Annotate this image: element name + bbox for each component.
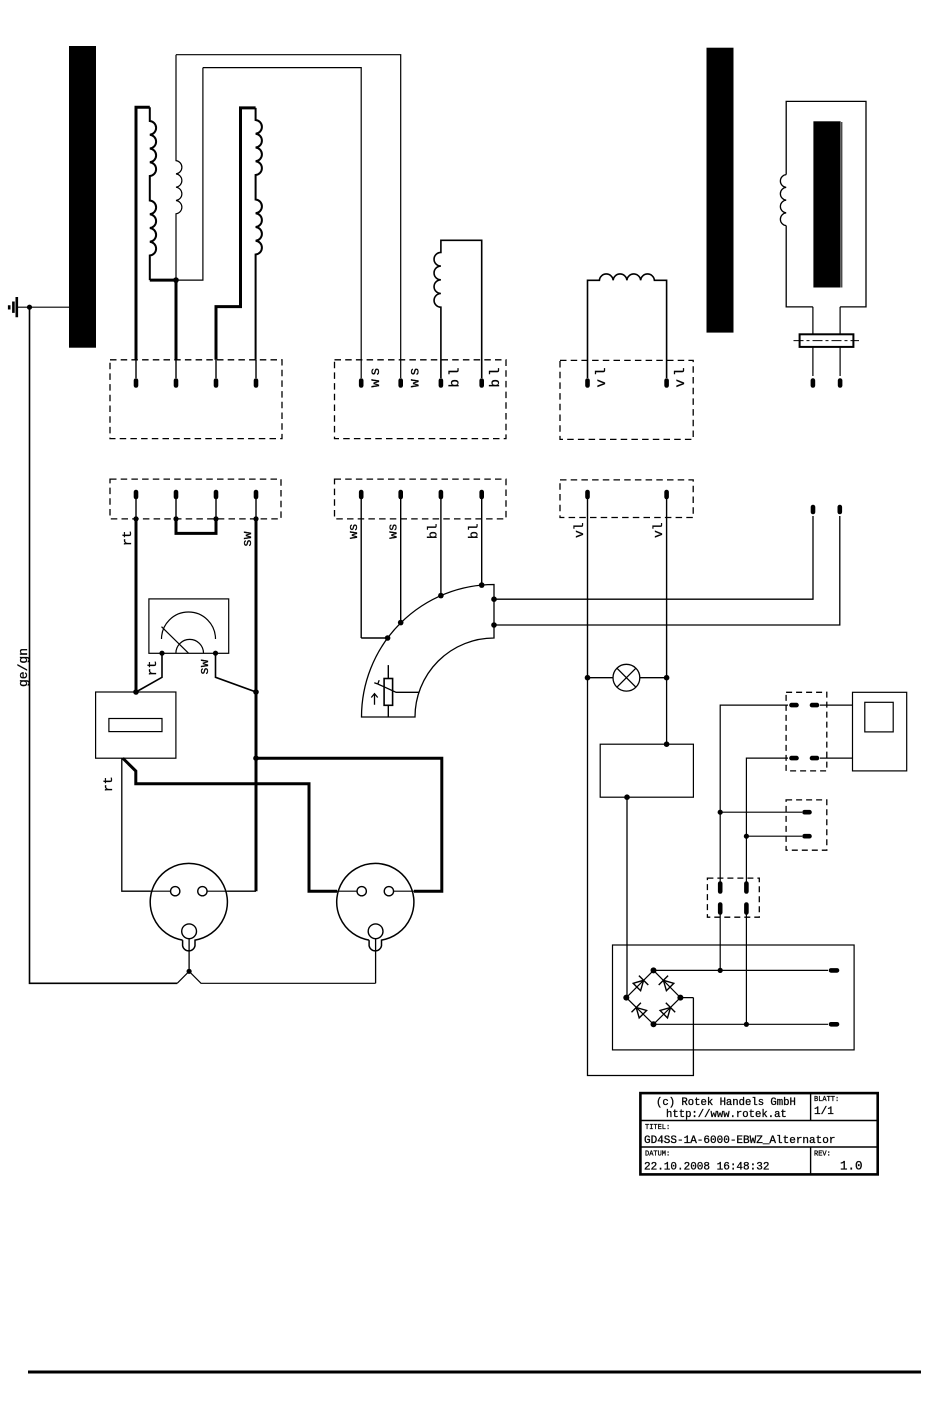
voltmeter outer scale arc [162,612,216,639]
svg-text:sw: sw [197,659,212,675]
pin ws [398,381,403,386]
connector X1 housing (generator side, left) [110,360,282,439]
svg-text:GD4SS-1A-6000-EBWZ_Alternator: GD4SS-1A-6000-EBWZ_Alternator [644,1135,835,1147]
wire voltmeter left to rt [136,653,162,692]
ground symbol [9,297,17,317]
svg-text:bl: bl [488,364,504,387]
regulator box U2 [600,744,693,797]
rheostat lead bottom [387,705,389,717]
pin X5-2 [805,834,810,839]
pin X6-1 upper [718,884,723,892]
pin vl [585,381,590,386]
svg-text:22.10.2008 16:48:32: 22.10.2008 16:48:32 [644,1162,769,1174]
svg-text:bl: bl [448,364,464,387]
pin bl [439,381,444,386]
wire X4-1 to motor [820,704,853,706]
node sw junction [253,689,259,695]
title block divider row1 [640,1120,877,1122]
svg-text:BLATT:: BLATT: [814,1096,839,1104]
wire ge/gn earth conductor [30,307,178,983]
wire lamp left [588,677,614,679]
pin vl1' [585,492,590,497]
svg-text:DATUM:: DATUM: [645,1151,670,1159]
node lamp left [585,675,591,681]
rotor winding coil [780,175,786,226]
svg-text:ws: ws [386,523,401,539]
wire sw continuation (thick) [255,692,258,891]
node bridge-/X6-2 [744,1022,749,1027]
wire top inner link to ws1 [203,68,361,378]
wire U-link pins 2'-3' (thick) [176,519,216,534]
connector X2 housing (generator side, right) [335,360,507,439]
pin X6-2 upper [744,884,749,892]
pin bl1' [439,492,444,497]
connector X5 housing [786,800,827,850]
wire ws1 jog to arc [361,637,387,639]
wire pin1 feed (thick) [136,107,150,359]
wire top outer link to ws2 [176,55,401,378]
node bridge+/X6-1 [718,968,723,973]
svg-text:1.0: 1.0 [840,1160,863,1174]
svg-text:rt: rt [145,660,160,676]
node bl1 on arc [438,593,444,599]
voltmeter needle [162,627,189,654]
pin ws2' [398,492,403,497]
pin 3 [215,360,217,378]
outlet socket 1 (schuko) [150,863,227,950]
slip ring axis (dash-dot) [794,340,860,342]
battery/rectifier box [613,945,855,1050]
svg-text:TITEL:: TITEL: [645,1124,670,1132]
wire node to riser [176,68,203,281]
starter motor box M1 [853,692,907,771]
diode D4 (bottom-right) [660,1003,675,1018]
node star point [173,277,179,283]
connector X3' housing (panel side, vl) [560,480,693,518]
starter motor inner square [865,702,893,732]
svg-text:ws: ws [368,364,384,387]
node sw/outlet-bus junction [253,755,259,761]
wire bridge- output [654,1023,829,1025]
rotor assembly outline [786,101,866,307]
voltmeter inner arc [176,639,204,653]
rheostat R1 body [384,679,393,706]
rotor core (black) [813,121,840,287]
pin 4 [255,360,257,378]
svg-text:vl: vl [594,364,610,387]
wire tap to X5-2 [746,835,802,837]
svg-text:1/1: 1/1 [814,1106,834,1118]
wire AVR rt bus (thick) [123,758,337,891]
title block divider rev [810,1147,812,1174]
node lamp right [664,675,670,681]
pin vl2' [664,492,669,497]
winding L1 (coil A) [150,107,156,280]
outlet socket 2 (schuko) [337,863,414,950]
node conduit output lower [491,622,497,628]
wire rotor leg left [812,307,814,376]
node voltmeter left pin [159,651,164,656]
wire rt drop (thick) [135,519,138,692]
pin 4' [254,492,259,497]
pin battery+ [831,968,837,973]
title block divider blatt [810,1093,812,1120]
node tap upper [718,810,723,815]
pin rotor- (lower) [837,507,842,512]
rotor core edge line [841,122,843,288]
node regulator top [664,741,670,747]
auxiliary winding (bl) [434,240,482,378]
diode D3 (bottom-left) [632,1003,647,1018]
svg-text:ge/gn: ge/gn [16,648,31,687]
wire tap to X5-1 [720,811,802,813]
pin X6-1 lower [718,905,723,913]
svg-text:sw: sw [240,531,255,547]
svg-text:(c) Rotek Handels GmbH: (c) Rotek Handels GmbH [656,1097,796,1109]
node bl2 on arc [479,582,485,588]
pin X4-1 right [812,703,817,708]
wire conduit to rotor- [494,516,840,625]
lamp H1 [613,664,640,691]
wire outlet2 right stub [414,890,442,892]
winding L3 (coil C) [256,108,262,360]
wire X4-2 to motor [820,757,853,759]
node voltmeter right pin [213,651,218,656]
node pin1' [133,516,138,521]
conduit bend (stator tap section) [362,585,495,718]
pin X4-2 right [812,756,817,761]
diode D1 (left-top) [633,976,648,991]
node pin2' [173,516,178,521]
connector X3 housing (generator side, vl) [560,360,693,439]
pin bl [479,381,484,386]
node conduit output upper [491,596,497,602]
excitation winding (vl) [588,274,667,378]
pin X4-2 left [792,756,797,761]
rheostat wiper tick [374,680,379,684]
node rt/AVR junction [133,689,139,695]
wire ground to stator core [17,306,69,308]
wire regulator to bridge [626,797,628,997]
node ws1 on arc [385,635,391,641]
pin battery- [831,1022,837,1027]
rheostat lead top [387,665,389,678]
pin 3' [214,492,219,497]
wire coil A bottom to node (thick) [150,279,176,282]
pin X6-2 lower [744,905,749,913]
pin X4-1 left [792,703,797,708]
pin rotor+ (upper) [811,381,816,386]
pin rotor+ (lower) [811,507,816,512]
node bridge top [651,967,657,973]
wire vl1 long drop [588,678,694,1076]
title block frame [640,1093,877,1174]
wire outlet1 earth drop [188,939,190,972]
connector X4 housing (starter) [786,692,827,771]
wire outlet1 right stub [227,890,256,892]
connector X6 housing (charge leads) [707,878,759,917]
rotor core bar (middle) [707,48,734,333]
wire AVR rt thin drop to outlet1 [122,758,151,891]
connector X2' housing (panel side, right) [335,479,507,519]
lamp X [617,668,636,687]
bridge rectifier arms [626,970,680,1024]
AVR inner rect [109,719,162,732]
pin 2 [175,360,177,378]
svg-text:REV:: REV: [814,1151,831,1159]
wire voltmeter right to sw [216,653,257,692]
svg-text:bl: bl [467,523,482,539]
svg-text:rt: rt [101,776,116,792]
pin rotor- (upper) [838,381,843,386]
wire bridge- to starter connector [746,758,788,1024]
node bridge left [623,995,629,1001]
wire vl2 to regulator [666,678,668,745]
pin X5-1 [805,810,810,815]
wire pin3 feed (thick) [216,108,256,360]
svg-text:rt: rt [120,530,135,546]
title block divider row2 [640,1146,877,1148]
wire lamp right [640,677,667,679]
stator core bar (left) [69,46,96,348]
svg-text:ws: ws [346,523,361,539]
arrow (adjustment) [371,694,377,705]
svg-text:ws: ws [408,364,424,387]
svg-text:bl: bl [426,523,441,539]
wire rotor leg right [839,307,841,376]
node earth junction [187,969,192,974]
node pin4' [253,516,258,521]
wire pin2 (thick) [175,280,178,360]
page footer rule [28,1371,921,1374]
pin vl [664,381,669,386]
svg-text:http://www.rotek.at: http://www.rotek.at [666,1109,787,1121]
wire bridge+ to starter connector [720,705,788,970]
wire sw bus to outlet2 right (thick) [256,758,442,891]
pin ws' [359,492,364,497]
slip ring block [800,334,854,347]
node tap lower [744,834,749,839]
pin 1' [134,492,139,497]
pin bl2' [479,492,484,497]
wire bridge+ output [654,969,829,971]
svg-text:vl: vl [651,522,666,538]
connector X1' housing (panel side, left) [110,479,281,519]
node regulator bottom [624,794,630,800]
AVR box U1 [96,692,176,758]
node ws2 on arc [398,620,404,626]
node bridge right [677,995,683,1001]
pin ws [359,381,364,386]
wire conduit to rotor+ [494,516,813,599]
wire outlet2 earth drop [375,939,377,984]
svg-text:vl: vl [673,364,689,387]
pin 2' [174,492,179,497]
voltmeter P1 box [149,599,229,653]
node ground junction [27,305,32,310]
node pin3' [213,516,218,521]
node bridge bottom [651,1021,657,1027]
diode D2 (right-top) [659,976,674,991]
winding L2 (coil B) [176,55,182,280]
wire earth chevron joint [177,971,375,983]
rheostat wiper [378,684,419,692]
svg-text:vl: vl [572,522,587,538]
wire sw drop (thick) [255,519,258,692]
pin 1 [135,360,137,378]
